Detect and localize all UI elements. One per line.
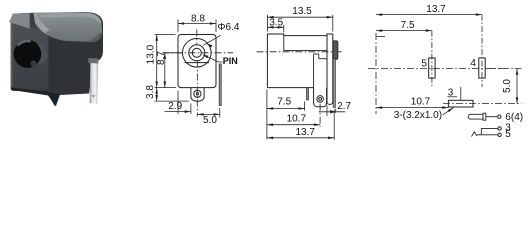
front view horizontal centerline — [163, 52, 234, 54]
photo: pin top attach shade — [88, 58, 98, 64]
side view internal contact lines — [313, 54, 315, 88]
photo: hole inner crescent — [37, 44, 48, 65]
dim 8.8 line — [178, 23, 216, 25]
photo: barrel hole — [14, 40, 42, 68]
photo: bottom shadow band — [11, 88, 48, 95]
svg-text:2.7: 2.7 — [337, 101, 351, 112]
svg-text:3-(3.2x1.0): 3-(3.2x1.0) — [394, 110, 442, 121]
footprint slot 5 — [429, 58, 435, 78]
front view vertical centerline — [196, 30, 198, 46]
svg-text:5.0: 5.0 — [203, 115, 217, 126]
dim 5.0 (footprint, vertical) — [489, 68, 522, 70]
dim 7.5 (side) — [266, 90, 268, 140]
svg-text:13.7: 13.7 — [295, 127, 315, 138]
dim 2.7 (side) — [326, 106, 328, 117]
extension line body bottom — [155, 87, 177, 89]
svg-text:7.5: 7.5 — [277, 97, 291, 108]
svg-text:2.9: 2.9 — [168, 101, 182, 112]
dim 13.7 (side) — [333, 110, 335, 140]
photo: metal pin — [90, 61, 99, 104]
svg-text:8.7: 8.7 — [156, 51, 167, 65]
front view side pin (right) — [219, 64, 221, 106]
front view mounting tab — [191, 88, 204, 102]
side view back thin pin — [333, 59, 335, 108]
front view outer circle (barrel opening) — [183, 39, 212, 68]
photo: cylinder top mass — [31, 13, 102, 43]
photo: front face left edge light — [11, 20, 19, 88]
side view centerline — [257, 51, 342, 53]
svg-text:3.5: 3.5 — [269, 17, 283, 28]
pin symbol 5 — [472, 132, 478, 137]
side view bezel + body outline — [267, 34, 327, 88]
photo: pin notch — [92, 95, 94, 97]
dim 3.8 line — [156, 88, 158, 102]
side view mounting plate (back) — [327, 34, 333, 104]
svg-text:13.7: 13.7 — [426, 4, 446, 15]
dim 10.7 (footprint) — [376, 107, 448, 109]
svg-text:5.0: 5.0 — [502, 79, 513, 93]
photo: bezel top face — [9, 13, 31, 29]
svg-text:5: 5 — [505, 129, 511, 140]
dim 10.7 (side) — [319, 104, 321, 127]
footprint left reference line — [375, 33, 377, 114]
front view body outline — [178, 35, 216, 88]
svg-text:5: 5 — [421, 59, 427, 70]
front view bottom chord of opening — [185, 62, 209, 64]
side view front pin — [307, 88, 309, 100]
front view middle circle — [189, 45, 205, 61]
dim 7.5 (footprint) — [376, 30, 432, 32]
svg-text:7.5: 7.5 — [401, 20, 415, 31]
side view leg with hole — [314, 88, 327, 107]
dim 13.7 (footprint) — [376, 14, 482, 16]
photo: bottom front pin (dark) — [47, 93, 59, 107]
photo: cylinder rim bright band — [31, 13, 50, 34]
dim 13.5 — [266, 15, 268, 32]
side view inner barrel lines — [283, 36, 285, 51]
extension line tab bottom — [155, 100, 189, 102]
svg-text:6(4): 6(4) — [505, 112, 523, 123]
svg-text:8.8: 8.8 — [191, 13, 205, 24]
footprint slot 4 — [479, 58, 485, 78]
front view inner circle (center pin) — [192, 48, 201, 57]
footprint slot 3 (horizontal) — [448, 100, 473, 107]
photo: front face — [11, 20, 49, 91]
pin symbol 3 — [481, 127, 497, 129]
photo: DC jack body silhouette — [11, 12, 103, 106]
svg-text:3.8: 3.8 — [145, 85, 156, 99]
dim 8.8 extension lines — [177, 20, 179, 33]
front view tab hole — [194, 90, 201, 97]
svg-text:13.0: 13.0 — [146, 44, 157, 64]
footprint horizontal centerline — [368, 68, 502, 70]
svg-text:4: 4 — [470, 58, 476, 69]
photo: collar groove — [30, 13, 37, 30]
pin symbol 6(4): plug barrel — [468, 114, 483, 119]
dim 3.5 — [283, 25, 285, 33]
photo: hole rim top-left highlight — [17, 40, 32, 46]
svg-text:10.7: 10.7 — [287, 113, 307, 124]
dim 5.0 — [219, 108, 221, 118]
dim 13.0 line (left) — [156, 35, 158, 88]
svg-text:10.7: 10.7 — [411, 96, 431, 107]
side view back pin bump — [333, 41, 338, 60]
dim 8.7 line — [164, 53, 166, 88]
svg-text:PIN: PIN — [223, 56, 238, 66]
photo: cylinder shoulder shade right — [88, 28, 103, 42]
dim 2.9 — [177, 91, 179, 115]
svg-text:Φ6.4: Φ6.4 — [218, 22, 240, 33]
photo: hole inner pin hint — [31, 61, 37, 67]
svg-text:13.5: 13.5 — [292, 6, 312, 17]
photo: top edge bright streak — [38, 13, 101, 25]
